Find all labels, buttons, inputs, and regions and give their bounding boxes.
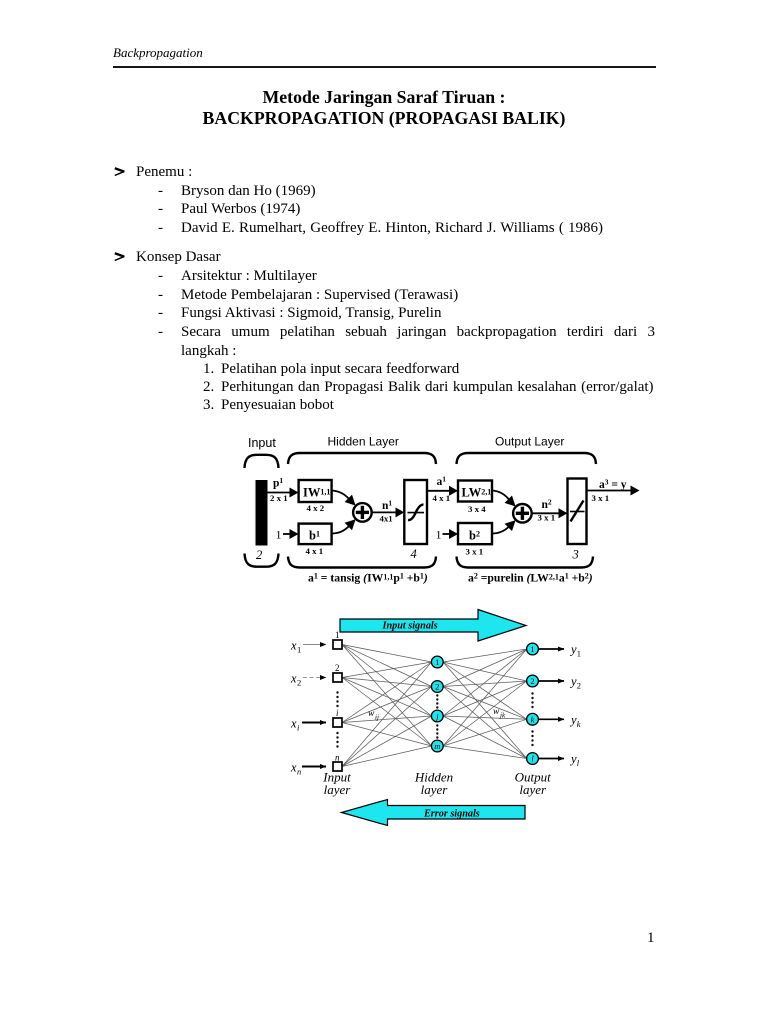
output wire a3=y	[587, 490, 632, 492]
page number	[647, 931, 655, 946]
svg-text:4x1: 4x1	[380, 514, 393, 524]
hidden neuron 1	[431, 656, 443, 668]
hidden layer bracket top	[288, 453, 436, 464]
output neuron l	[527, 753, 539, 765]
svg-text:3 x 4: 3 x 4	[468, 504, 486, 514]
svg-text:4 x 2: 4 x 2	[307, 503, 325, 513]
svg-text:4 x 1: 4 x 1	[306, 546, 324, 556]
svg-text:3 x 1: 3 x 1	[538, 513, 556, 523]
xi input wire	[302, 722, 326, 724]
svg-text:1: 1	[297, 645, 301, 655]
hidden neuron m	[431, 740, 443, 752]
svg-text:Input: Input	[248, 436, 276, 450]
svg-text:3 x 1: 3 x 1	[466, 547, 484, 557]
output neuron labels	[530, 644, 534, 764]
purelin box	[568, 479, 587, 545]
svg-text:jk: jk	[499, 712, 506, 720]
error signals arrow	[342, 800, 526, 826]
svg-text:x: x	[290, 672, 297, 686]
svg-text:layer: layer	[421, 782, 449, 797]
weight box IW1,1	[299, 480, 332, 502]
header rule	[113, 66, 656, 68]
y1 output wire	[539, 648, 564, 650]
dash	[158, 184, 163, 199]
dash	[158, 202, 163, 217]
input node square i	[333, 718, 342, 727]
y2 output wire	[539, 680, 564, 682]
svg-text:n1: n1	[382, 499, 392, 513]
svg-text:Input signals: Input signals	[382, 621, 438, 632]
svg-text:1: 1	[276, 528, 282, 542]
svg-text:2: 2	[335, 663, 340, 673]
svg-text:w: w	[368, 709, 375, 719]
svg-text:y: y	[569, 713, 577, 727]
input node square 2	[333, 673, 342, 682]
output neuron 1	[527, 643, 539, 655]
svg-text:3: 3	[572, 548, 579, 562]
svg-text:2: 2	[297, 678, 301, 688]
wire tansig to LW	[427, 490, 450, 492]
svg-text:k: k	[531, 714, 535, 724]
bullet arrow 1	[114, 167, 127, 177]
svg-text:m: m	[434, 741, 440, 751]
yl output wire	[539, 758, 564, 760]
svg-text:2 x 1: 2 x 1	[270, 493, 288, 503]
svg-text:n2: n2	[542, 498, 552, 512]
svg-text:1: 1	[335, 630, 340, 640]
hidden layer bracket bottom	[288, 557, 436, 568]
output layer bracket top	[457, 453, 597, 464]
x2 input wire	[303, 677, 326, 679]
wire IW to sum1	[332, 491, 349, 500]
yk output wire	[539, 718, 564, 720]
svg-text:4 x 1: 4 x 1	[433, 493, 451, 503]
bias box b1	[299, 524, 332, 545]
svg-text:a1: a1	[437, 475, 447, 489]
wire sum1 to tansig	[372, 511, 396, 513]
hidden neuron j	[431, 710, 443, 722]
label Input layer	[322, 770, 551, 798]
hidden-output connection wires	[443, 649, 527, 759]
output neuron k	[527, 713, 539, 725]
svg-text:Hidden Layer: Hidden Layer	[328, 435, 399, 449]
output layer bracket bottom	[457, 557, 594, 568]
svg-text:ij: ij	[375, 714, 379, 722]
svg-text:w: w	[493, 707, 500, 717]
section: Konsep Dasar	[136, 250, 221, 265]
svg-text:1: 1	[577, 649, 581, 659]
svg-text:x: x	[290, 761, 297, 775]
svg-text:3 x 1: 3 x 1	[592, 493, 610, 503]
svg-text:a2 =purelin (LW2,1a1 +b2): a2 =purelin (LW2,1a1 +b2)	[468, 572, 593, 585]
svg-text:a1 = tansig (IW1,1p1 +b1): a1 = tansig (IW1,1p1 +b1)	[308, 572, 428, 585]
svg-text:y: y	[569, 752, 577, 766]
svg-text:layer: layer	[324, 782, 352, 797]
svg-text:n: n	[335, 753, 340, 763]
input bracket bottom	[245, 554, 279, 567]
wire 1 to b2	[443, 533, 450, 535]
input-hidden connection wires	[342, 645, 432, 767]
svg-text:k: k	[577, 719, 581, 729]
svg-text:Output Layer: Output Layer	[495, 435, 564, 449]
xn input wire	[302, 766, 326, 768]
svg-text:i: i	[336, 708, 339, 718]
justified paragraph	[181, 323, 655, 360]
input signals arrow	[340, 610, 526, 642]
title	[0, 87, 768, 129]
summing junction 1	[353, 503, 372, 522]
wire p to IW	[268, 492, 291, 494]
hidden neuron labels	[434, 657, 440, 751]
svg-text:1: 1	[530, 644, 534, 654]
input node square 1	[333, 640, 342, 649]
output dots column	[531, 692, 533, 746]
wire b2 to sum2	[492, 527, 509, 534]
input dots column	[336, 691, 338, 747]
svg-text:n: n	[297, 767, 301, 777]
svg-text:1: 1	[435, 657, 439, 667]
svg-text:layer: layer	[519, 782, 547, 797]
svg-text:x: x	[290, 639, 297, 653]
svg-text:y: y	[569, 643, 577, 657]
wire b1 to sum1	[332, 526, 349, 534]
section: Penemu	[136, 165, 192, 180]
bias box b2	[458, 523, 492, 544]
svg-text:x: x	[290, 717, 297, 731]
tansig box	[404, 480, 427, 544]
wire LW to sum2	[492, 491, 509, 500]
svg-text:2: 2	[577, 681, 581, 691]
dash	[158, 221, 163, 236]
svg-text:y: y	[569, 675, 577, 689]
wire sum2 to purelin	[532, 512, 559, 514]
output neuron 2	[527, 675, 539, 687]
input node square n	[333, 762, 342, 771]
input vector bar p	[256, 480, 268, 546]
hidden dots column	[436, 694, 438, 738]
svg-text:Error signals: Error signals	[423, 809, 480, 820]
bullet arrow 2	[114, 252, 127, 262]
svg-text:2: 2	[435, 682, 439, 692]
wire 1 to b1	[283, 533, 290, 535]
input bracket top	[245, 455, 279, 468]
svg-text:4: 4	[411, 547, 417, 561]
x1 input wire	[303, 644, 326, 646]
running header: Backpropagation	[113, 45, 203, 60]
summing junction 2	[513, 504, 532, 523]
svg-text:2: 2	[256, 548, 262, 562]
hidden neuron 2	[431, 681, 443, 693]
svg-text:l: l	[577, 758, 580, 768]
svg-text:1: 1	[436, 528, 442, 542]
weight box LW2,1	[458, 481, 492, 502]
svg-text:2: 2	[530, 676, 534, 686]
svg-text:p1: p1	[273, 476, 283, 490]
svg-text:a3 = y: a3 = y	[599, 478, 627, 492]
svg-text:i: i	[297, 723, 300, 733]
